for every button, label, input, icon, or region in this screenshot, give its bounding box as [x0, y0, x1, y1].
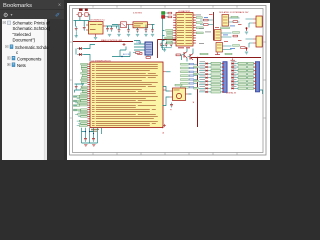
net label iso c	[233, 45, 240, 47]
ladder A row 3	[199, 68, 223, 71]
MCU U1 left pins	[88, 64, 91, 126]
MCU U1 comment text	[91, 129, 99, 132]
ladder A row 8	[199, 86, 223, 89]
ladder A row 4	[199, 72, 223, 75]
capacitor C14	[170, 42, 173, 48]
ladder A row 5	[199, 76, 223, 79]
ground ladder a	[84, 145, 87, 147]
ladder B row 4	[231, 72, 255, 75]
page-edge net labels bottom-left	[74, 96, 80, 98]
capacitor C1	[75, 26, 78, 32]
ladder B row 7	[231, 83, 255, 86]
ladder A row 7	[199, 83, 223, 86]
relay K2	[253, 36, 262, 47]
tiny label noise 1	[196, 15, 211, 44]
ground relay a	[245, 32, 248, 34]
resistor R6	[200, 19, 208, 21]
label U6	[221, 27, 230, 29]
ground relay b	[245, 52, 248, 54]
ladder A left labels	[194, 66, 199, 68]
ladder A row 9	[199, 90, 223, 93]
ladder B row 6	[231, 79, 255, 82]
resistor R4	[168, 12, 172, 14]
decoupling ladder below U1	[82, 128, 102, 143]
tiny label noise 2	[204, 17, 235, 49]
wire input rail	[74, 15, 90, 27]
MCU U1 right pin b	[163, 89, 166, 91]
net label bus a	[200, 53, 208, 55]
net label col row 6	[181, 82, 198, 84]
bus junction	[197, 57, 199, 59]
transistor Q2	[188, 54, 194, 60]
ground C6	[127, 34, 130, 36]
svg-text:Schematic.Schdo: Schematic.Schdo	[15, 45, 49, 50]
label under U3	[178, 47, 190, 48]
MCU left long wires	[74, 97, 78, 111]
svg-text:×: ×	[193, 101, 195, 105]
junction dots ladder	[85, 131, 94, 134]
net label crystal	[175, 84, 182, 86]
svg-text:Schematic Prints of: Schematic Prints of	[13, 21, 51, 26]
svg-text:TXD0: TXD0	[136, 42, 142, 44]
IC U3 left net labels	[165, 29, 173, 43]
diode D1	[85, 13, 90, 16]
ground C9	[151, 34, 154, 36]
wire uart	[134, 41, 145, 51]
wire U3 left bus	[163, 18, 165, 50]
IC U3 right pins	[193, 15, 196, 43]
svg-text:U1 STM32F103VCT6: U1 STM32F103VCT6	[92, 60, 112, 62]
relay K1	[253, 16, 262, 27]
optocoupler U6	[222, 15, 229, 27]
regulator U5	[127, 22, 152, 28]
tiny label noise 3	[209, 14, 242, 42]
resistor R11	[133, 52, 140, 54]
capacitor C9	[151, 27, 154, 33]
label D1	[85, 9, 88, 11]
capacitor C10	[75, 84, 78, 90]
svg-text:"Selected: "Selected	[13, 32, 32, 37]
ladder B row 3	[231, 68, 255, 71]
IC U3 right net labels	[196, 17, 203, 34]
resistor R7	[200, 24, 208, 26]
bus vertical	[197, 58, 199, 128]
wire right pin a	[166, 71, 171, 73]
IC U3 body	[176, 13, 193, 47]
bus horizontal	[191, 57, 261, 59]
svg-text:BOOT0: BOOT0	[123, 54, 131, 56]
net label col row 7	[181, 86, 198, 88]
MCU U1 body	[90, 62, 163, 128]
wires to relays	[246, 19, 254, 48]
wire transistor	[182, 49, 194, 62]
svg-text:DIGITAL IN: DIGITAL IN	[226, 92, 237, 95]
ladder B row 2	[231, 65, 255, 68]
diode D2	[77, 47, 84, 50]
net label col row 3	[181, 71, 198, 73]
diode D6	[245, 27, 248, 31]
connector J3	[255, 62, 260, 93]
ground C5	[117, 34, 120, 36]
resistor R5	[168, 16, 172, 18]
capacitor C22	[170, 103, 173, 108]
capacitor C20	[84, 139, 87, 143]
crystal Y1	[173, 88, 186, 101]
svg-text:✐: ✐	[55, 12, 60, 19]
wire loop uart	[112, 47, 130, 57]
IC U3 pin rows	[177, 14, 192, 44]
capacitor C8	[145, 27, 148, 33]
net label iso a	[231, 16, 238, 18]
resistor R2	[146, 55, 151, 58]
ladder B row 8	[231, 86, 255, 89]
net label col row 1	[181, 63, 198, 65]
svg-text:3.3V REG: 3.3V REG	[133, 13, 142, 15]
ladder A row 2	[199, 65, 223, 68]
capacitor C11	[81, 84, 84, 90]
ladder B row 5	[231, 76, 255, 79]
MCU U1 bottom-right pin	[163, 124, 166, 127]
ladder A row 6	[199, 79, 223, 82]
capacitor C6	[127, 27, 130, 33]
LED D5	[162, 15, 168, 18]
fuse F1	[76, 13, 83, 16]
ground C7	[136, 34, 139, 36]
svg-text:⚙: ⚙	[3, 12, 8, 19]
capacitor C3	[106, 26, 109, 32]
svg-text:U4 LM2940CT-5: U4 LM2940CT-5	[90, 20, 106, 22]
capacitor C7	[136, 27, 139, 33]
crystal Y1 pins	[170, 91, 189, 97]
wire crystal loop	[163, 87, 192, 106]
net label bus b	[225, 53, 232, 55]
MCU U1 pin text rows	[92, 64, 158, 126]
bus stub vertical iso	[213, 12, 215, 41]
label F1	[79, 9, 83, 11]
ground caps row	[161, 48, 171, 50]
IC U2	[145, 42, 153, 55]
ground ladder b	[92, 145, 95, 147]
optocoupler U8	[216, 43, 223, 53]
resistor R3	[176, 54, 181, 56]
red mark uart	[123, 43, 126, 46]
svg-text:Nets: Nets	[17, 63, 26, 68]
section divider line	[73, 41, 133, 43]
ground U4	[94, 37, 97, 39]
capacitor C2	[83, 25, 86, 31]
wire cap pair	[75, 84, 85, 93]
diode D8	[215, 53, 220, 55]
svg-text:ISOLATED IO INTERFACE 24V: ISOLATED IO INTERFACE 24V	[219, 11, 249, 14]
svg-text:Document"): Document")	[13, 37, 36, 42]
wire 5V	[106, 26, 119, 29]
svg-text:MAIN CONTROLLER: MAIN CONTROLLER	[101, 39, 122, 42]
svg-text:×: ×	[162, 131, 164, 135]
transistor Q1	[182, 52, 188, 58]
ground input	[75, 32, 77, 36]
ferrite bead L1	[118, 22, 127, 28]
wire reset	[76, 45, 95, 62]
net label col row 2	[181, 67, 198, 69]
ground output caps	[108, 34, 111, 36]
svg-text:×: ×	[58, 3, 61, 9]
diode D3	[77, 53, 84, 56]
resistor R1	[136, 53, 143, 55]
diode D7	[245, 47, 248, 51]
wire J3 tail	[260, 90, 263, 94]
resistor R9	[233, 35, 238, 37]
capacitor C5	[118, 27, 121, 33]
resistor R8	[233, 21, 238, 23]
MCU U1 left net labels	[75, 63, 87, 126]
wire 3.3V rail	[112, 25, 155, 30]
net label col row 5	[181, 79, 198, 81]
diode D9 (top)	[231, 58, 236, 60]
connector J2	[222, 62, 227, 93]
junction dot room	[161, 39, 162, 40]
ground C8	[144, 34, 147, 36]
LED D4	[162, 12, 168, 15]
regulator U4	[86, 22, 106, 38]
svg-text:×: ×	[170, 108, 172, 112]
ladder A row 1	[199, 61, 223, 64]
wires iso	[208, 18, 239, 50]
junction uart	[121, 56, 122, 57]
MCU U1 right pin a	[163, 71, 166, 73]
capacitor C21	[92, 139, 95, 143]
optocoupler U7	[215, 30, 222, 41]
svg-text:Bookmarks: Bookmarks	[3, 3, 32, 9]
svg-text:Schematic.SchDoc(: Schematic.SchDoc(	[13, 26, 51, 31]
ladder B row 1	[231, 61, 255, 64]
capacitor C4	[110, 26, 113, 32]
svg-text:Components: Components	[17, 56, 41, 61]
svg-text:▾: ▾	[11, 12, 13, 17]
IC U3 left pins	[173, 15, 176, 43]
capacitor C12	[160, 42, 163, 48]
resistor R10	[241, 47, 246, 49]
room border	[158, 40, 177, 59]
capacitor C13	[165, 42, 168, 48]
net label col row 4	[181, 75, 198, 77]
net label iso b	[233, 32, 240, 34]
